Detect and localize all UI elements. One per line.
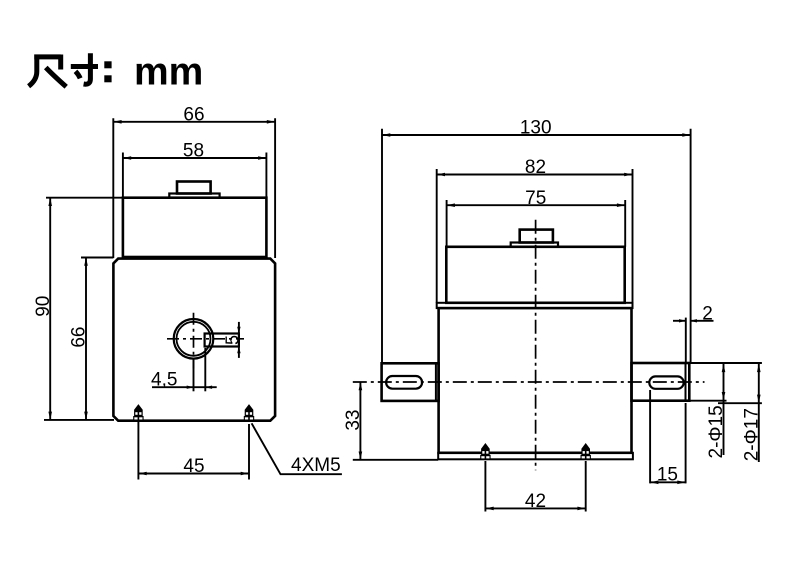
dim 66 top bbox=[113, 118, 275, 258]
svg-text:66: 66 bbox=[183, 104, 204, 125]
centerline vertical through circle bbox=[193, 313, 195, 369]
svg-text:42: 42 bbox=[525, 491, 546, 512]
screw M5 side right bbox=[581, 443, 591, 459]
connector plate front bbox=[169, 194, 219, 198]
svg-text:33: 33 bbox=[343, 410, 364, 431]
leader 4XM5 bbox=[252, 423, 342, 474]
connector bump top front bbox=[177, 182, 211, 194]
title 寸 bbox=[71, 53, 98, 84]
svg-text:75: 75 bbox=[525, 188, 546, 209]
centerline horizontal side view bbox=[353, 381, 705, 383]
svg-text:15: 15 bbox=[657, 465, 678, 486]
svg-text:45: 45 bbox=[183, 456, 204, 477]
keyway width dim 5 bbox=[238, 322, 240, 358]
coil housing front (58 wide) bbox=[123, 198, 267, 257]
dim 58 bbox=[123, 153, 267, 198]
centerline horizontal through circle bbox=[167, 338, 244, 340]
bottom plate side bbox=[438, 453, 633, 460]
svg-text:mm: mm bbox=[134, 51, 203, 94]
body front (66 wide) bbox=[113, 259, 275, 421]
connector plate side bbox=[511, 243, 558, 247]
left tab slot bbox=[386, 376, 422, 389]
screw M5 front right bbox=[244, 404, 254, 420]
dim 2 (tab thickness) bbox=[673, 318, 714, 363]
dim 66 vertical bbox=[81, 258, 113, 420]
svg-text:58: 58 bbox=[183, 141, 204, 162]
right tab top extension line bbox=[689, 362, 762, 364]
dim 2-Φ15 bbox=[723, 364, 725, 455]
dim 130 bbox=[382, 129, 691, 363]
body side bbox=[439, 308, 632, 453]
left tab bend line bbox=[435, 363, 437, 401]
connector bump top side bbox=[520, 230, 553, 243]
svg-text:2-Φ15: 2-Φ15 bbox=[706, 405, 727, 458]
title 尺 bbox=[29, 55, 67, 87]
centerline vertical side view bbox=[535, 220, 537, 471]
dim 90 vertical bbox=[44, 198, 124, 420]
svg-text:4,5: 4,5 bbox=[151, 370, 177, 391]
svg-text:4XM5: 4XM5 bbox=[291, 455, 341, 476]
svg-text:5: 5 bbox=[223, 335, 243, 345]
dim 82 bbox=[437, 169, 633, 303]
flange plate side (82 wide) bbox=[437, 303, 633, 308]
keyway rectangle bbox=[205, 334, 239, 347]
dim 4,5 extension lines bbox=[152, 348, 217, 391]
screw M5 front left bbox=[133, 404, 143, 420]
right mounting tab bbox=[632, 363, 690, 401]
right tab slot bbox=[649, 376, 683, 388]
dim 2-Φ17 bbox=[758, 364, 760, 462]
title colon bbox=[104, 61, 111, 82]
coil housing side (75 wide) bbox=[446, 247, 624, 303]
right tab bottom extension lines bbox=[689, 400, 726, 402]
dim 33 bbox=[353, 382, 438, 460]
dim 45 bottom bbox=[138, 422, 249, 480]
dim 75 bbox=[447, 200, 626, 247]
dim 15 bbox=[650, 390, 686, 483]
svg-text:2-Φ17: 2-Φ17 bbox=[742, 408, 763, 461]
right tab bend line bbox=[685, 363, 687, 401]
left mounting tab bbox=[382, 363, 439, 401]
svg-text:90: 90 bbox=[33, 296, 54, 317]
shaft circle inner bbox=[177, 322, 211, 356]
svg-text:82: 82 bbox=[525, 157, 546, 178]
svg-text:2: 2 bbox=[702, 304, 713, 325]
svg-text:66: 66 bbox=[69, 327, 90, 348]
dim 42 bbox=[485, 461, 585, 512]
svg-text:130: 130 bbox=[520, 117, 552, 138]
shaft circle outer bbox=[174, 319, 214, 359]
screw M5 side left bbox=[480, 443, 490, 459]
